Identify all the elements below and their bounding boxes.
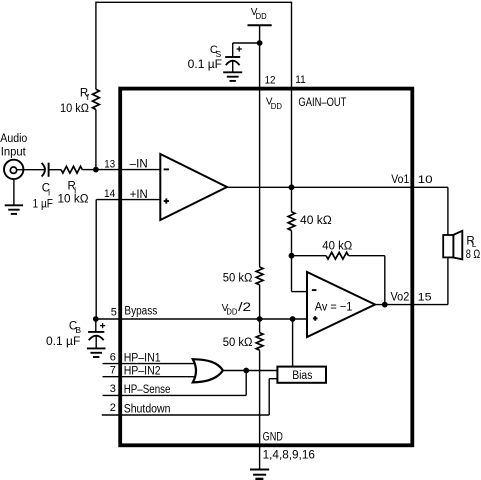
svg-text:0.1 µF: 0.1 µF [46,336,80,348]
resistor 40k (feedback) [326,252,348,259]
svg-text:Vo2: Vo2 [391,291,410,303]
svg-text:0.1 µF: 0.1 µF [188,59,222,71]
svg-text:10: 10 [418,174,433,186]
svg-text:Av = −1: Av = −1 [315,302,353,314]
svg-text:5: 5 [111,306,117,318]
label Audio Input [0,133,27,159]
capacitor CB [88,323,105,348]
label GAIN-OUT (pin 11) [298,97,346,109]
wire node to 40k feedback [292,255,327,257]
label HP-IN2 [124,366,161,378]
wire pin 2 Shutdown [102,379,278,415]
pin 6 [110,351,116,363]
pin 3 [110,383,116,395]
op-amp A2 (Av = -1) [307,272,375,337]
node input junction (Rf/Ri/pin13) [93,167,99,173]
wire Rf to input node [95,110,97,170]
svg-text:L: L [472,239,477,249]
wire pin 6 HP-IN1 [103,363,196,365]
wire OR output [222,370,277,372]
svg-text:11: 11 [295,74,305,86]
svg-text:50 kΩ: 50 kΩ [223,337,253,349]
svg-text:40 kΩ: 40 kΩ [322,241,352,253]
label GND [263,431,283,443]
resistor Rf [93,89,100,109]
svg-text:10 kΩ: 10 kΩ [60,103,89,115]
svg-text:DD: DD [271,101,282,111]
wire connector to ground [13,180,15,206]
wire 50k lower to GND pin [259,350,261,469]
svg-text:Shutdown: Shutdown [124,404,171,416]
label Ri [68,180,77,195]
node +input/Bias junction [290,316,296,322]
svg-text:i: i [48,188,50,198]
svg-text:GND: GND [263,431,283,443]
label VDD (pin 12) [266,97,282,112]
wire Ci to Ri [49,169,62,171]
svg-text:HP–IN2: HP–IN2 [124,366,161,378]
value 50 k&#937; (lower) [223,337,253,349]
svg-text:40 kΩ: 40 kΩ [300,215,332,227]
wire VDD supply to pin 12 and divider [259,25,261,267]
wire 40k feedback to Vo2 [349,256,385,305]
value 0.1 &#181;F (CS) [188,59,222,71]
label CS [210,44,222,59]
wire top feedback from pin 11 to Rf [96,2,292,90]
wire VDD/2 to 50k lower [259,319,261,333]
label VDD/2 [222,302,252,317]
pin 11 [295,74,305,86]
wire connector to Ci [16,169,44,171]
svg-text:50 kΩ: 50 kΩ [223,272,253,284]
wire pin 14 +IN [96,200,160,319]
svg-text:Audio: Audio [0,133,27,145]
node OR output junction [243,368,249,374]
resistor 40k (upper) [288,212,295,231]
svg-text:DD: DD [256,11,267,21]
wire to Bias block [292,319,294,367]
svg-text:15: 15 [418,291,432,303]
node VDD/2 [257,316,263,322]
node 40k junction [289,253,295,259]
wire bypass to CB [95,319,97,332]
value 1 &#181;F (Ci) [33,199,54,211]
svg-text:8 Ω: 8 Ω [466,249,481,261]
wire pin 7 HP-IN2 [103,376,196,378]
pin 15 [418,291,432,303]
resistor Ri [61,166,82,173]
pin 10 [418,174,433,186]
pin 7 [110,365,116,377]
ground (CB) [87,348,106,357]
pin 12 [265,74,276,86]
power VDD supply symbol [248,24,272,26]
label +IN [130,189,148,201]
label Vo2 [391,291,410,303]
wire node to A2 inverting input [292,256,308,292]
label Rf [80,88,90,103]
svg-text:Bias: Bias [292,370,312,382]
wire VDD to CS [233,43,260,57]
wire gain-out to 40k [291,187,293,212]
svg-text:B: B [75,325,81,335]
block Bias [277,367,326,383]
value 10 k&#937; (Rf) [60,103,89,115]
label Bypass [124,305,157,317]
label HP-Sense [124,384,171,396]
node VDD junction with CS [257,40,263,46]
ground (CS) [223,72,242,81]
svg-text:2: 2 [110,402,116,414]
ground (audio input) [5,205,23,214]
svg-text:7: 7 [110,365,116,377]
node gain-out junction [289,184,295,190]
svg-text:10 kΩ: 10 kΩ [58,194,89,206]
svg-text:Input: Input [1,147,27,159]
pin 14 [104,188,115,200]
svg-text:S: S [216,49,222,59]
svg-text:Vo1: Vo1 [391,174,409,186]
svg-text:HP–Sense: HP–Sense [124,384,171,396]
label Ci [42,182,50,197]
svg-text:6: 6 [110,351,116,363]
svg-text:GAIN–OUT: GAIN–OUT [298,97,346,109]
svg-text:1,4,8,9,16: 1,4,8,9,16 [263,450,315,462]
value 0.1 &#181;F (CB) [46,336,80,348]
label -IN [130,159,148,171]
wire Vo1 to speaker [412,187,448,235]
pin 5 [111,306,117,318]
value 8 &#937; (RL) [466,249,481,261]
capacitor Ci [42,163,49,177]
IC package outline U1 [120,89,412,446]
pin 2 [110,402,116,414]
op-amp A1 [160,154,227,220]
value 40 k&#937; (feedback) [322,241,352,253]
wire 50k to VDD/2 node [259,285,261,319]
svg-text:3: 3 [110,383,116,395]
wire pin 13 -IN [96,169,160,171]
capacitor CS [225,46,242,72]
wire 40k to node [291,231,293,256]
wire A1 output to Vo1 [227,186,412,188]
label CB [69,320,82,335]
label Bias [292,370,312,382]
svg-text:12: 12 [265,74,276,86]
svg-text:+IN: +IN [130,189,148,201]
wire pin 3 HP-Sense [103,371,247,396]
label Shutdown [124,404,171,416]
svg-text:DD: DD [226,307,237,317]
svg-text:HP–IN1: HP–IN1 [124,352,161,364]
label Av = -1 [315,302,353,314]
svg-text:1 µF: 1 µF [33,199,54,211]
ground (GND pin) [250,470,269,479]
wire speaker to Vo2 [412,258,448,305]
svg-text:–IN: –IN [130,159,148,171]
svg-text:14: 14 [104,188,115,200]
value 50 k&#937; (upper) [223,272,253,284]
wire Bypass VDD/2 rail [96,318,307,320]
wire Ri to input node [82,169,96,171]
pins 1,4,8,9,16 [263,450,315,462]
node bypass junction [93,316,99,322]
wire pin 11 inside [291,89,293,188]
speaker RL [443,231,462,259]
value 40 k&#937; (upper) [300,215,332,227]
svg-text:13: 13 [104,158,115,170]
label HP-IN1 [124,352,161,364]
label Vo1 [391,174,409,186]
resistor 50k (lower) [256,333,263,351]
wire A2 output to Vo2 [375,304,412,306]
label RL [466,236,476,250]
value 10 k&#937; (Ri) [58,194,89,206]
svg-text:Bypass: Bypass [124,305,157,317]
or-gate U2 [193,359,223,382]
svg-text:/2: /2 [238,302,251,314]
resistor 50k (upper) [256,267,263,285]
label VDD (supply) [251,7,267,21]
node Vo2 junction [382,302,388,308]
pin 13 [104,158,115,170]
connector Audio Input [4,160,23,179]
